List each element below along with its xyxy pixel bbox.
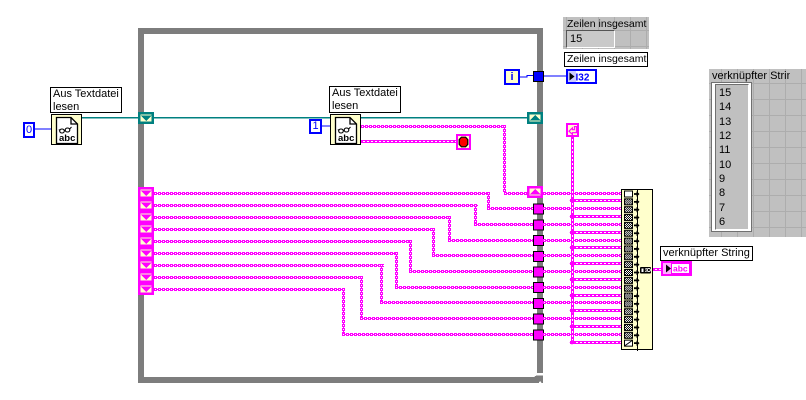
svg-text:abc: abc xyxy=(673,264,688,274)
svg-text:I32: I32 xyxy=(576,73,590,83)
svg-text:abc: abc xyxy=(59,133,75,144)
svg-text:abc: abc xyxy=(338,133,354,144)
